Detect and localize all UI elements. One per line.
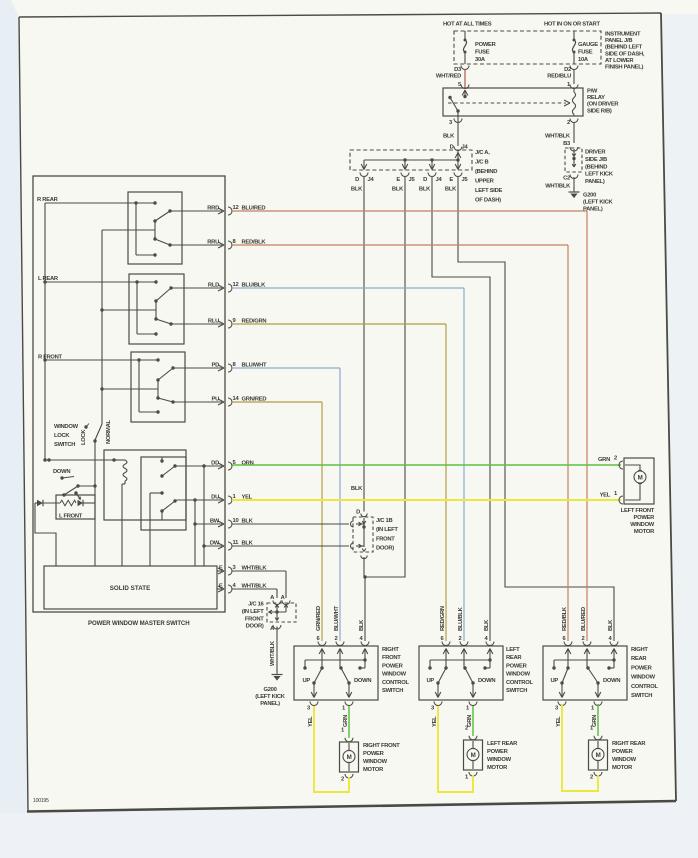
svg-text:2: 2 (459, 636, 462, 642)
svg-text:GRN: GRN (343, 715, 349, 727)
svg-text:DOWN: DOWN (53, 469, 70, 475)
svg-text:BLU/RED: BLU/RED (581, 607, 587, 631)
svg-text:J/C A,: J/C A, (475, 150, 490, 156)
svg-text:MOTOR: MOTOR (487, 765, 508, 771)
svg-text:DU: DU (211, 495, 219, 501)
svg-text:D: D (423, 177, 427, 183)
svg-text:E: E (449, 177, 453, 183)
svg-text:MOTOR: MOTOR (612, 765, 633, 771)
svg-text:POWER: POWER (506, 663, 528, 669)
svg-text:WINDOW: WINDOW (54, 424, 79, 430)
svg-text:YEL: YEL (556, 716, 562, 727)
svg-text:GAUGE: GAUGE (578, 42, 598, 48)
svg-text:D3: D3 (454, 67, 462, 73)
svg-text:(IN LEFT: (IN LEFT (242, 609, 264, 615)
svg-text:FUSE: FUSE (578, 50, 593, 56)
svg-text:10: 10 (233, 518, 239, 524)
svg-text:LEFT: LEFT (506, 647, 520, 653)
svg-text:SWITCH: SWITCH (506, 688, 527, 694)
svg-text:BLU/BLK: BLU/BLK (458, 606, 464, 631)
svg-text:BLK: BLK (419, 187, 431, 193)
svg-text:G200: G200 (583, 193, 596, 199)
svg-text:WHT/BLK: WHT/BLK (545, 184, 571, 190)
svg-text:PANEL): PANEL) (585, 179, 605, 185)
svg-text:LEFT FRONT: LEFT FRONT (621, 508, 655, 514)
svg-text:OF DASH): OF DASH) (475, 198, 501, 204)
svg-text:L FRONT: L FRONT (59, 514, 83, 520)
svg-text:POWER: POWER (612, 749, 634, 755)
svg-text:POWER: POWER (363, 751, 385, 757)
svg-text:12: 12 (233, 282, 239, 288)
svg-text:HOT IN ON OR START: HOT IN ON OR START (544, 22, 600, 28)
svg-text:B3: B3 (563, 141, 571, 147)
svg-text:DW: DW (210, 541, 220, 547)
svg-text:WINDOW: WINDOW (612, 757, 637, 763)
svg-text:GRN/RED: GRN/RED (316, 606, 322, 631)
svg-text:2: 2 (567, 120, 570, 126)
svg-text:RIGHT: RIGHT (382, 647, 399, 653)
svg-text:P/W: P/W (587, 89, 598, 95)
svg-text:SIDE J/B: SIDE J/B (585, 157, 607, 163)
svg-text:BLK: BLK (484, 619, 490, 631)
svg-text:YEL: YEL (600, 493, 611, 499)
svg-text:G200: G200 (263, 687, 276, 693)
svg-text:D: D (356, 510, 360, 516)
svg-text:2: 2 (335, 636, 338, 642)
svg-text:J/C 1B: J/C 1B (376, 518, 392, 524)
svg-text:UPPER: UPPER (475, 179, 495, 185)
svg-text:DD: DD (211, 461, 219, 467)
svg-text:SWITCH: SWITCH (631, 693, 652, 699)
svg-text:FRONT: FRONT (245, 616, 264, 622)
svg-text:PANEL J/B: PANEL J/B (605, 38, 632, 44)
svg-text:PANEL): PANEL) (583, 207, 603, 213)
svg-text:FRONT: FRONT (376, 536, 395, 542)
svg-text:POWER: POWER (382, 663, 404, 669)
svg-text:12: 12 (233, 205, 239, 211)
svg-text:(BEHIND LEFT: (BEHIND LEFT (605, 45, 643, 51)
svg-text:C2: C2 (563, 176, 570, 182)
svg-text:POWER WINDOW MASTER SWITCH: POWER WINDOW MASTER SWITCH (88, 620, 189, 627)
svg-text:RIGHT: RIGHT (631, 647, 648, 653)
svg-text:2: 2 (341, 777, 344, 783)
svg-text:LOCK: LOCK (81, 429, 87, 445)
svg-text:YEL: YEL (308, 716, 314, 727)
svg-text:LEFT KICK: LEFT KICK (585, 172, 614, 178)
svg-text:DOWN: DOWN (354, 678, 371, 684)
svg-text:D: D (355, 177, 359, 183)
svg-text:FRONT: FRONT (382, 655, 401, 661)
svg-text:HOT AT ALL TIMES: HOT AT ALL TIMES (443, 22, 492, 28)
svg-text:GRN: GRN (598, 457, 610, 463)
svg-text:WINDOW: WINDOW (631, 675, 656, 681)
svg-text:WINDOW: WINDOW (363, 759, 388, 765)
svg-text:AT LOWER: AT LOWER (605, 58, 634, 64)
svg-text:BLK: BLK (351, 486, 363, 492)
svg-text:DOWN: DOWN (478, 678, 495, 684)
svg-text:BLU/WHT: BLU/WHT (334, 605, 340, 631)
svg-text:E: E (396, 177, 400, 183)
svg-text:WINDOW: WINDOW (382, 672, 407, 678)
svg-text:M: M (347, 754, 352, 761)
svg-text:2: 2 (465, 726, 468, 732)
svg-text:NORMAL: NORMAL (106, 420, 112, 444)
svg-text:RIGHT REAR: RIGHT REAR (612, 741, 646, 747)
svg-text:2: 2 (614, 456, 617, 462)
svg-text:POWER: POWER (487, 749, 509, 755)
svg-text:POWER: POWER (631, 665, 653, 671)
svg-text:10A: 10A (578, 57, 589, 63)
svg-text:WHT/BLK: WHT/BLK (545, 134, 571, 140)
svg-text:RRD: RRD (207, 206, 219, 212)
svg-text:(ON DRIVER: (ON DRIVER (587, 102, 619, 108)
svg-text:J/C 16: J/C 16 (248, 602, 264, 608)
svg-text:RLU: RLU (208, 319, 219, 325)
svg-text:(LEFT KICK: (LEFT KICK (583, 200, 613, 206)
svg-text:LEFT SIDE: LEFT SIDE (475, 188, 503, 194)
svg-text:E: E (219, 584, 223, 590)
svg-text:R REAR: R REAR (37, 197, 59, 203)
svg-text:L REAR: L REAR (38, 276, 59, 282)
svg-text:E: E (219, 566, 223, 572)
svg-text:RED/BLU: RED/BLU (547, 74, 571, 80)
svg-text:SOLID STATE: SOLID STATE (110, 585, 151, 592)
svg-text:RELAY: RELAY (587, 95, 605, 101)
svg-text:BLK: BLK (445, 187, 457, 193)
svg-text:BLK: BLK (359, 619, 365, 631)
svg-text:2: 2 (582, 636, 585, 642)
svg-text:REAR: REAR (631, 656, 647, 662)
svg-text:RED/BLK: RED/BLK (562, 606, 568, 631)
svg-text:SWITCH: SWITCH (382, 688, 403, 694)
svg-text:UP: UP (551, 678, 559, 684)
svg-text:WINDOW: WINDOW (630, 522, 655, 528)
svg-text:DOWN: DOWN (603, 678, 620, 684)
svg-text:DRIVER: DRIVER (585, 150, 606, 156)
svg-text:UP: UP (427, 678, 435, 684)
svg-text:BLK: BLK (608, 619, 614, 631)
svg-text:SIDE OF DASH,: SIDE OF DASH, (605, 51, 645, 57)
svg-text:RRU: RRU (207, 240, 219, 246)
svg-text:WHT/RED: WHT/RED (436, 74, 461, 80)
svg-text:PD: PD (212, 363, 220, 369)
svg-text:LOCK: LOCK (54, 433, 70, 439)
svg-text:DOOR): DOOR) (246, 624, 264, 630)
svg-text:(LEFT KICK: (LEFT KICK (255, 694, 285, 700)
svg-text:BLK: BLK (351, 187, 363, 193)
svg-text:RIGHT FRONT: RIGHT FRONT (363, 743, 400, 749)
svg-text:(BEHIND: (BEHIND (585, 164, 607, 170)
svg-text:BLK: BLK (392, 187, 404, 193)
svg-text:WHT/BLK: WHT/BLK (270, 640, 276, 666)
svg-text:BW: BW (210, 519, 220, 525)
svg-text:SIDE R/B): SIDE R/B) (587, 108, 612, 114)
svg-text:CONTROL: CONTROL (506, 680, 533, 686)
svg-text:2: 2 (590, 775, 593, 781)
svg-text:J/C B: J/C B (475, 160, 489, 166)
svg-text:100195: 100195 (33, 798, 49, 804)
svg-text:MOTOR: MOTOR (363, 767, 384, 773)
svg-text:MOTOR: MOTOR (634, 529, 655, 535)
svg-text:D2: D2 (564, 67, 571, 73)
svg-text:30A: 30A (475, 57, 486, 63)
svg-text:UP: UP (303, 678, 311, 684)
svg-text:(IN LEFT: (IN LEFT (376, 527, 398, 533)
svg-text:RLD: RLD (208, 283, 219, 289)
svg-text:WINDOW: WINDOW (506, 672, 531, 678)
svg-text:CONTROL: CONTROL (382, 680, 409, 686)
svg-text:POWER: POWER (475, 42, 497, 48)
svg-text:PANEL): PANEL) (260, 701, 280, 707)
svg-text:FINISH PANEL): FINISH PANEL) (605, 65, 643, 71)
svg-text:POWER: POWER (634, 515, 656, 521)
svg-text:YEL: YEL (432, 716, 438, 727)
svg-text:BLK: BLK (443, 134, 455, 140)
svg-text:LEFT REAR: LEFT REAR (487, 741, 518, 747)
svg-text:PU: PU (212, 397, 220, 403)
svg-text:M: M (638, 475, 643, 482)
svg-text:M: M (471, 752, 476, 759)
svg-text:REAR: REAR (506, 655, 522, 661)
svg-text:RED/GRN: RED/GRN (440, 606, 446, 631)
svg-text:INSTRUMENT: INSTRUMENT (605, 32, 641, 38)
svg-text:DOOR): DOOR) (376, 546, 394, 552)
svg-text:SWITCH: SWITCH (54, 442, 75, 448)
svg-text:FUSE: FUSE (475, 50, 490, 56)
svg-text:CONTROL: CONTROL (631, 684, 658, 690)
svg-text:WINDOW: WINDOW (487, 757, 512, 763)
svg-text:(BEHIND: (BEHIND (475, 169, 497, 175)
svg-text:M: M (596, 752, 601, 759)
